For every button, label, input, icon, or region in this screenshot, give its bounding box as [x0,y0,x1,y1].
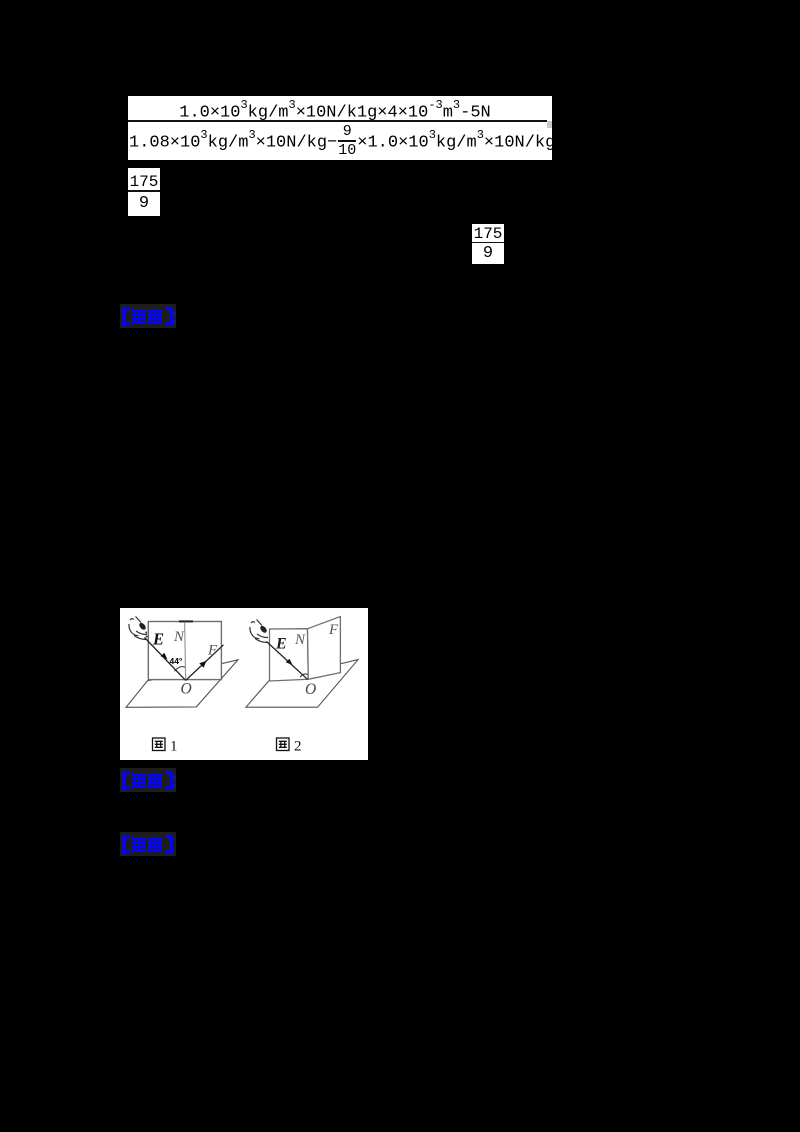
mirror rectangle 1 [148,622,221,680]
dark top segment [179,620,193,622]
svg-text:E: E [275,636,287,653]
faint specks after bracket [173,312,176,317]
svg-text:E: E [152,630,164,649]
svg-text:F: F [207,643,218,659]
blue label 2 (【分析】) [120,768,176,792]
figure panel [120,608,368,760]
fraction 175/9 box 1 [128,168,160,216]
svg-text:N: N [173,629,185,645]
blue label 1 (【点评】) [120,304,176,328]
fraction 175/9 box 2 [472,224,504,264]
svg-text:N: N [294,632,306,648]
svg-text:1: 1 [170,739,178,755]
fraction bar [128,120,547,122]
normal line N [185,622,186,680]
svg-text:44°: 44° [170,656,183,666]
svg-text:O: O [181,681,192,698]
ground plane 2 [246,660,358,708]
blue label 3 (【解答】) [120,832,176,856]
panel E-N (left) 2 [270,629,309,681]
incident ray 1 [145,638,186,681]
svg-text:F: F [328,622,339,638]
formula box [128,96,552,160]
hand / flashlight 2 [250,620,268,643]
angle arc 2 [300,674,308,677]
svg-text:2: 2 [294,739,302,755]
incident ray 2 [267,642,308,680]
angle arc 1 [175,667,185,672]
panel F (right, folded) 2 [308,617,341,680]
numerator [128,95,552,126]
caption 图 1 [153,738,166,751]
reflected ray 1 [186,645,224,681]
denominator [129,123,552,159]
gray artifact square [547,121,552,128]
ground plane 1 [126,660,238,708]
caption 图 2 [277,738,290,751]
hand / flashlight 1 [129,617,147,640]
faint specks after bracket 2 [173,776,176,781]
svg-text:O: O [305,681,316,698]
